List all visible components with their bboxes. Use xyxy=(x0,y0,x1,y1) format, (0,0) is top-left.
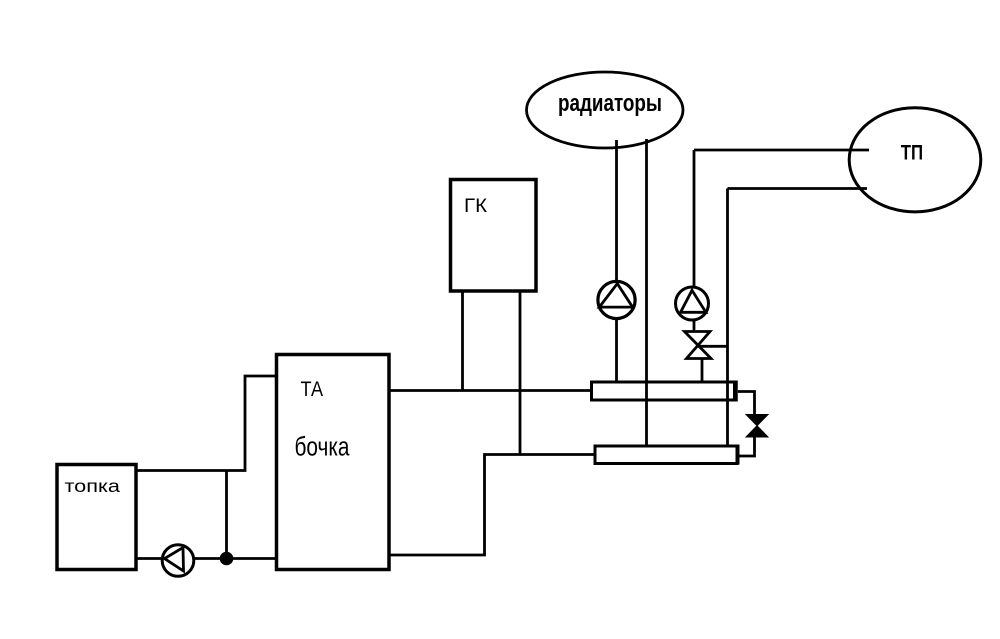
wire: furnace top outlet to TA tank left inlet xyxy=(136,376,277,471)
wire: bypass top from upper manifold to valve V2 xyxy=(738,392,755,415)
radiators ellipse xyxy=(527,72,684,148)
wire: TP return horizontal from TP ellipse xyxy=(728,187,868,190)
wire: branch down from top wire to junction xyxy=(225,471,228,559)
wire: TP return vertical down to lower manifold xyxy=(726,189,729,447)
valve V2 (filled bypass valve) xyxy=(746,415,768,438)
wire: below valve V1 down to upper manifold xyxy=(701,359,704,383)
wire: furnace bottom return through pump P1 to TA tank xyxy=(136,557,277,560)
wire: radiators return line down to lower manifold xyxy=(645,139,648,446)
pump P2 (radiators circuit pump) xyxy=(598,281,635,318)
buffer tank box (ТА бочка) xyxy=(277,355,390,570)
wire: TA tank right outlet to upper manifold xyxy=(389,389,592,392)
pump P1 (circulation pump at furnace) xyxy=(162,545,194,577)
TP ellipse (floor heating) xyxy=(849,108,981,212)
wire: GK left pipe down to supply wire xyxy=(461,291,464,391)
boiler box (ГК) xyxy=(451,180,537,292)
wire: TP supply vertical down through pump P3 to valve V1 xyxy=(693,150,696,332)
valve V1 (balancing valve, outline hourglass) xyxy=(685,332,712,359)
svg-text:бочка: бочка xyxy=(295,432,350,462)
lower manifold (return header) xyxy=(595,445,738,465)
upper manifold (supply header) xyxy=(592,381,736,402)
wire: radiators supply line down through pump P2 to upper manifold xyxy=(615,140,618,382)
node junction dot xyxy=(220,552,234,566)
wire: valve V1 center tap to TP return vertical xyxy=(698,345,728,348)
svg-text:топка: топка xyxy=(65,476,121,496)
wire: bypass bottom from valve V2 to lower manifold xyxy=(739,437,755,456)
svg-text:ГК: ГК xyxy=(464,196,488,217)
furnace box (топка) xyxy=(57,465,136,570)
svg-text:радиаторы: радиаторы xyxy=(558,90,662,117)
wire: TA tank bottom-right to lower manifold xyxy=(389,455,595,556)
wire: TP supply horizontal into TP ellipse xyxy=(694,149,869,152)
pump P3 (floor heating circuit pump) xyxy=(676,287,709,320)
svg-text:ТП: ТП xyxy=(901,141,923,165)
svg-text:ТА: ТА xyxy=(301,377,324,401)
wire: GK right pipe down to return wire xyxy=(519,291,522,455)
